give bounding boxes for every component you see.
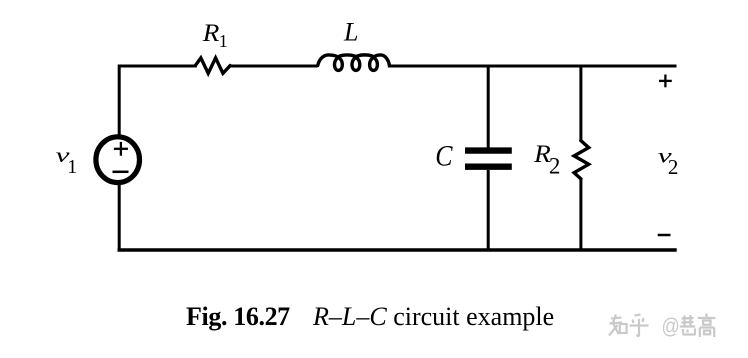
svg-text:1: 1: [67, 156, 77, 178]
wire: R1 to L: [230, 65, 318, 68]
svg-text:1: 1: [219, 31, 228, 51]
wire: R2 branch upper: [579, 66, 582, 141]
label v1: [56, 143, 78, 178]
svg-text:Fig. 16.27: Fig. 16.27: [186, 302, 290, 331]
svg-text:@: @: [662, 315, 680, 339]
watermark at-sign: [662, 315, 680, 339]
wire: capacitor branch upper: [487, 66, 490, 148]
capacitor C plates: [465, 151, 512, 167]
wire: L to top-right end: [389, 65, 675, 68]
wire: capacitor branch lower: [487, 170, 490, 250]
terminal minus sign: [658, 234, 671, 237]
resistor R2: [574, 141, 589, 179]
wire: R2 branch lower: [579, 179, 582, 250]
svg-text:2: 2: [549, 154, 561, 179]
wire: top-left corner from source to R1: [119, 66, 195, 136]
svg-text:R: R: [202, 19, 220, 47]
voltage source V1 circle: [96, 137, 140, 183]
svg-text:L: L: [343, 18, 358, 47]
inductor L: [318, 55, 390, 71]
label v2: [658, 143, 679, 179]
caption R-L-C circuit example: [312, 302, 554, 331]
caption Fig. 16.27: [186, 302, 290, 331]
voltage source plus terminal: [114, 142, 128, 156]
voltage source minus terminal: [113, 171, 129, 174]
wire: source to bottom-left corner: [118, 183, 121, 250]
svg-text:2: 2: [668, 155, 679, 179]
label C: [435, 140, 453, 173]
label R2: [533, 140, 560, 178]
watermark zhihu: [609, 314, 716, 338]
wire: bottom rail: [119, 248, 675, 251]
svg-text:C: C: [435, 140, 453, 173]
terminal plus sign: [659, 75, 672, 88]
label R1: [202, 19, 228, 51]
resistor R1: [195, 58, 230, 73]
label L: [343, 18, 358, 47]
svg-text:R–L–C circuit example: R–L–C circuit example: [312, 302, 554, 331]
